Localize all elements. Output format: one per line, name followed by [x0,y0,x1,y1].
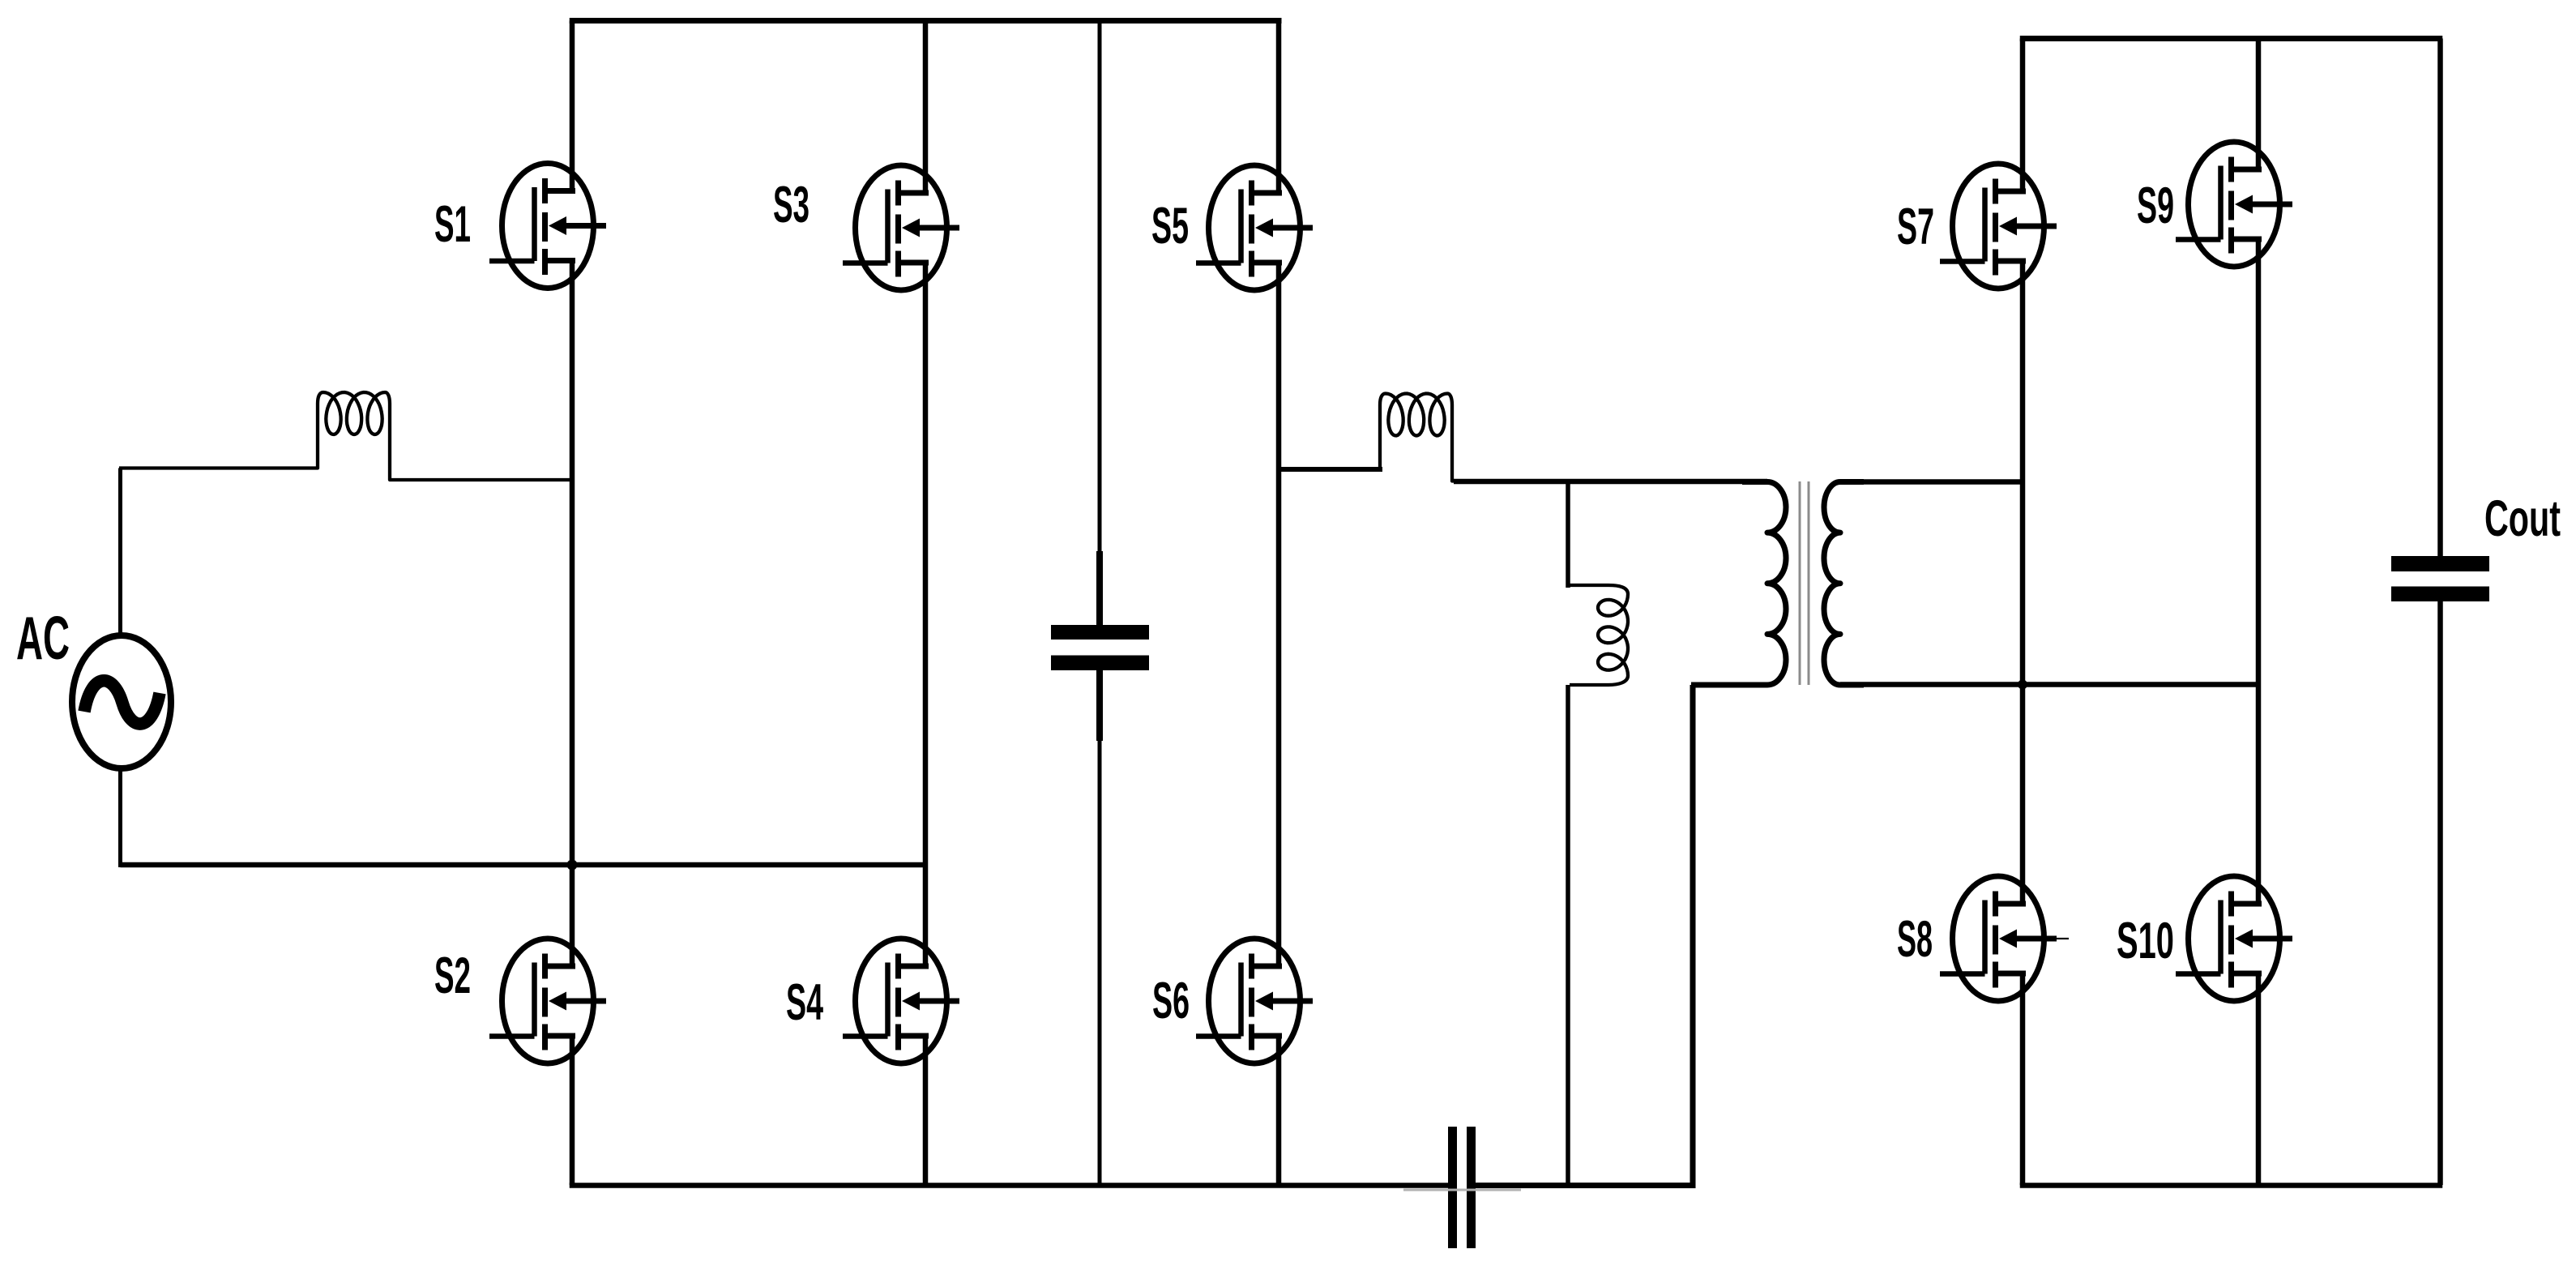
wire: S5 drain leg from top bus [1276,21,1282,192]
wire: secondary-side top bus [2020,36,2443,41]
wire: secondary top to S7/S8 midpoint [1840,479,2023,485]
svg-text:S3: S3 [773,177,810,233]
wire: resonant inductor to transformer primary top [1454,479,1767,485]
wire: DC-link capacitor lower leg (thin part) [1098,738,1102,1185]
wire: S8 source to bottom bus [2020,973,2026,1185]
svg-text:Cout: Cout [2484,490,2561,547]
transistor S5 [1196,165,1313,290]
transformer secondary winding [1824,482,1864,686]
transformer primary winding [1691,482,1786,686]
wire: S2 source to bottom bus [570,1036,575,1185]
svg-text:S4: S4 [786,974,823,1031]
transistor S3 [843,165,959,290]
svg-text:S9: S9 [2137,178,2174,234]
wire: AC source top lead [118,468,122,636]
capacitor Cr right plate [1467,1127,1476,1248]
wire: AC source bottom lead [118,768,122,867]
wire: S5/S6 midpoint to resonant inductor [1279,467,1382,472]
junction artifact where secondary bottom crosses S7/S8 leg [2018,680,2027,690]
capacitor Cout bottom plate [2391,587,2489,602]
wire: S4 source to bottom bus [923,1036,929,1185]
svg-text:S7: S7 [1897,199,1934,255]
wire: DC-link capacitor lower lead (thick part) [1096,670,1103,741]
transistor S2 [489,939,606,1063]
svg-text:S5: S5 [1151,198,1189,255]
wire: AC return line to S3/S4 midpoint [121,862,926,868]
wire: S1 source to S2 drain leg [570,261,575,966]
wire: secondary bottom to S9/S10 midpoint [1840,682,2258,687]
capacitor Cr left plate (resonant capacitor) [1448,1127,1457,1248]
wire: S9 drain leg [2256,39,2262,170]
wire: DC-link capacitor upper lead (thick part) [1096,551,1103,625]
wire: S1 drain leg from top bus [570,21,575,192]
wire: S9 source to S10 drain leg [2256,239,2262,904]
AC source sine glyph [84,681,160,724]
DC-link capacitor top plate [1051,625,1149,640]
inductor Lr (resonant inductor) [1279,394,1769,481]
wire: Cout upper leg [2437,39,2443,557]
transistor S6 [1196,939,1313,1063]
transformer core line 1 [1799,481,1801,685]
svg-text:S1: S1 [434,196,471,253]
faint underlay line behind resonant capacitor [1403,1189,1521,1191]
wire: secondary-side bottom bus [2020,1183,2443,1188]
wire: S10 source to bottom bus [2256,973,2262,1185]
transistor S10 [2176,876,2292,1001]
wire: primary-side top DC+ bus [570,18,1282,24]
inductor Lm (magnetizing inductance) [1570,585,1628,685]
transistor S7 [1940,164,2057,289]
transistor S9 [2176,142,2292,267]
capacitor Cout top plate [2391,556,2489,571]
thin bulk-terminal artifact line of S8 [2056,938,2069,939]
svg-text:S8: S8 [1897,911,1933,968]
transistor S4 [843,939,959,1063]
wire: bottom bus from resonant cap to transformer-primary return [1476,1183,1696,1188]
wire: magnetizing inductor top branch [1566,481,1570,588]
svg-text:AC: AC [16,604,70,672]
DC-link capacitor bottom plate [1051,656,1149,671]
svg-text:S6: S6 [1152,973,1190,1029]
wire: Cout lower leg [2437,601,2443,1185]
wire: DC-link capacitor upper leg (thin part) [1098,21,1102,554]
wire: S7 drain leg [2020,39,2026,192]
wire: S3 drain leg from top bus [923,21,929,192]
transistor S8 [1940,876,2057,1001]
wire: magnetizing inductor bottom branch to bottom bus [1566,685,1570,1185]
inductor L1 (boost inductor, AC to S1/S2 midpoint) [119,392,572,480]
svg-text:S10: S10 [2117,913,2174,969]
transistor S1 (NMOS with body diode arrow) [489,164,606,289]
wire: transformer primary bottom return leg [1690,685,1696,1188]
wire: S7 source to S8 drain leg [2020,261,2026,904]
transformer core line 2 [1808,481,1810,685]
svg-text:S2: S2 [434,948,471,1004]
wire: primary-side bottom bus (left of resonant cap) [570,1183,1448,1188]
wire: S5 source to S6 drain leg [1276,263,1282,966]
AC source circle [72,635,171,768]
junction artifact where AC return crosses S1/S2 leg [567,860,578,871]
wire: S3 source to S4 drain leg [923,263,929,966]
wire: S6 source to bottom bus [1276,1036,1282,1185]
